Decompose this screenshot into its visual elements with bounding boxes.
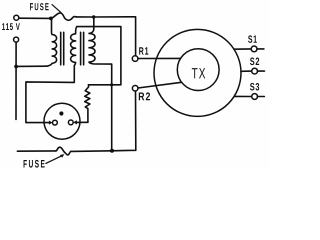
fuse F2 (bottom) [56, 147, 71, 155]
TX tube inner element [177, 49, 219, 91]
wire S1 stub [257, 48, 264, 50]
terminal S1 [251, 46, 257, 52]
transformer core lines (left pair) [61, 32, 64, 65]
label R2 [139, 92, 150, 100]
node junction dot B [92, 15, 95, 18]
node junction dot A (fuse F1 left) [49, 17, 53, 21]
node R2 [132, 86, 138, 92]
wire junction B to corner, down to R1 [94, 17, 136, 56]
terminal 115V bottom [14, 37, 19, 42]
label FUSE (top) [30, 3, 49, 10]
wire filament return: middle winding bottom to socket left pin [26, 66, 74, 123]
wire R1 to TX inner anode [138, 57, 181, 59]
wire right winding bottom to vertical drop [98, 64, 112, 151]
wire S3 stub [258, 96, 265, 98]
terminal S2 [252, 68, 258, 74]
node R1 [132, 56, 138, 62]
wire bottom line left segment [17, 150, 56, 152]
socket right pin plug arrowhead [73, 120, 77, 124]
arrowhead of FUSE bottom leader [60, 154, 65, 158]
wire primary bottom return [16, 65, 45, 67]
wire R2 to TX inner anode [138, 82, 182, 88]
wire S2 lead [241, 70, 252, 72]
terminal S3 [252, 94, 258, 100]
label R1 [139, 47, 148, 54]
wire S1 lead [234, 48, 251, 50]
node junction dot E [110, 149, 114, 153]
label S2 [250, 58, 259, 66]
TX tube outer envelope [154, 29, 241, 116]
label leader line FUSE top [52, 5, 61, 13]
label S3 [250, 83, 259, 91]
socket index dot [59, 111, 63, 115]
transformer core lines (right pair) [81, 32, 84, 65]
wire fuse F1 to junction B [77, 16, 94, 18]
terminal 115V top [14, 15, 19, 20]
label FUSE (bottom) [24, 160, 45, 168]
transformer T1 secondary / middle winding [71, 27, 77, 66]
node junction dot D [110, 83, 113, 86]
socket left pin jack [53, 120, 58, 125]
wire top from terminal to fuse F1 [19, 17, 51, 19]
transformer winding right (to rectifier circuit) [89, 17, 98, 64]
label S1 [248, 35, 257, 43]
node junction dot C (primary return) [14, 65, 18, 69]
transformer T1 primary winding [45, 18, 56, 66]
label leader arrow FUSE bottom [46, 156, 62, 164]
wire left vertical from lower 115V terminal [15, 42, 17, 119]
label TX [192, 68, 205, 78]
socket left pin plug arrowhead [49, 121, 53, 125]
wire bottom line right segment [71, 91, 136, 151]
wire middle winding top to corner and down [77, 27, 121, 85]
wire S3 lead [234, 95, 252, 97]
resistor R (filament rheostat) [85, 85, 90, 123]
label 115 V [2, 23, 20, 30]
wire resistor to socket right pin [77, 121, 88, 123]
wire S2 stub [258, 70, 265, 72]
fuse F1 (top) [51, 13, 77, 20]
socket right pin jack [68, 120, 73, 125]
tube socket shell [44, 103, 80, 139]
